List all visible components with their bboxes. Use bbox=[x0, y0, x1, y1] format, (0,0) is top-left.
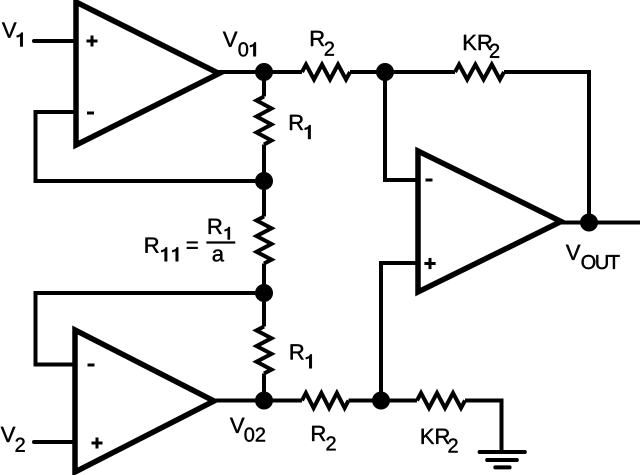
node C junction dot bbox=[255, 284, 273, 302]
op-amp U2 bbox=[75, 330, 214, 472]
wire node A down to U3 inverting input bbox=[385, 70, 418, 180]
label V1 bbox=[2, 23, 23, 47]
wire node C to R1 bottom bbox=[262, 291, 266, 327]
op-amp U1 bbox=[76, 2, 219, 145]
wire R2 to node A bbox=[350, 70, 387, 74]
label R1 bottom bbox=[291, 344, 312, 368]
wire R11 to node C bbox=[262, 264, 266, 296]
label R2 bottom bbox=[312, 426, 335, 451]
wire KR2 bottom to ground bbox=[465, 401, 502, 453]
resistor R11 gain set resistor bbox=[257, 217, 272, 264]
node D junction dot bbox=[372, 392, 390, 410]
wire V2 input stub bbox=[34, 440, 76, 444]
op-amp U3 bbox=[418, 151, 561, 292]
label VOUT bbox=[566, 245, 620, 269]
label R11 = R1/a bbox=[146, 219, 236, 262]
node A junction dot bbox=[376, 63, 394, 81]
wire node V01 down to R1 bbox=[262, 70, 266, 97]
wire U3 output to node VOUT bbox=[559, 221, 591, 225]
wire R1 to node B bbox=[262, 145, 266, 184]
wire V1 input stub bbox=[34, 39, 76, 43]
wire U2 feedback loop bbox=[36, 293, 263, 365]
wire node V01 to R2 bbox=[262, 70, 302, 74]
resistor KR2 (bottom, to ground) bbox=[417, 393, 465, 408]
wire U1 output to node V01 bbox=[217, 70, 266, 74]
wire node D to KR2 bottom bbox=[381, 399, 417, 403]
wire R2 bottom to node D bbox=[349, 399, 384, 403]
node V02 junction dot bbox=[255, 392, 273, 410]
label KR2 bottom bbox=[422, 429, 458, 453]
resistor R2 (top) bbox=[302, 65, 350, 80]
label R1 top bbox=[290, 115, 311, 139]
wire VOUT node to right edge bbox=[589, 221, 640, 225]
wire node V02 to R2 bottom bbox=[262, 399, 302, 403]
wire KR2 to output node bbox=[504, 72, 589, 223]
resistor KR2 (top feedback) bbox=[455, 65, 504, 80]
label KR2 top bbox=[464, 35, 499, 58]
wire U1 feedback loop bbox=[36, 112, 263, 181]
wire node B to R11 bbox=[262, 179, 266, 217]
label V02 bbox=[230, 418, 265, 442]
node V01 junction dot bbox=[255, 63, 273, 81]
wire U2 output to node V02 bbox=[212, 399, 266, 403]
label V2 bbox=[1, 427, 25, 452]
label R2 top bbox=[311, 31, 334, 56]
resistor R2 (bottom) bbox=[302, 393, 349, 408]
wire node A to KR2 bbox=[385, 70, 455, 74]
node B junction dot bbox=[255, 172, 273, 190]
node VOUT junction dot bbox=[580, 214, 598, 232]
resistor R1 (bottom) bbox=[257, 327, 272, 374]
label V01 bbox=[223, 32, 256, 57]
resistor R1 (top) bbox=[257, 97, 272, 145]
wire R1 bottom to node V02 bbox=[262, 374, 266, 403]
wire node D up to U3 non-inverting input bbox=[381, 263, 418, 402]
ground bbox=[480, 452, 525, 467]
